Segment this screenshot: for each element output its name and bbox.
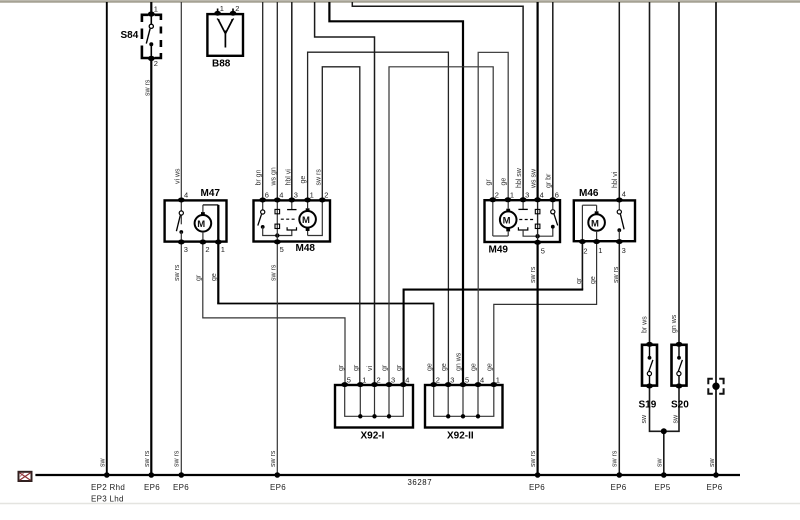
node EP6 (M48 wire) xyxy=(270,483,286,492)
svg-text:EP6: EP6 xyxy=(707,483,723,492)
X92-II pin 2 xyxy=(436,376,440,385)
wire br ws: top border to S19 xyxy=(649,2,651,345)
M48 pin 5 xyxy=(280,245,284,254)
switch S20 xyxy=(672,342,687,389)
svg-text:M: M xyxy=(197,219,205,230)
svg-text:sw rs: sw rs xyxy=(145,79,152,96)
wire label ws sw (M49 pin 4) xyxy=(530,168,537,189)
svg-text:M: M xyxy=(503,216,511,227)
svg-text:sw: sw xyxy=(641,414,648,424)
M46 pin 1 xyxy=(598,246,602,255)
svg-text:1: 1 xyxy=(598,246,602,255)
M49 pin 1 xyxy=(510,191,514,200)
svg-text:EP6: EP6 xyxy=(270,483,286,492)
wire sw: junction below S19/S20 to ground bus xyxy=(663,431,665,475)
svg-text:sw rs: sw rs xyxy=(174,450,181,467)
svg-text:EP6: EP6 xyxy=(611,483,627,492)
wire vi ws: top border to M47 pin 4 xyxy=(180,2,182,200)
svg-text:1: 1 xyxy=(220,4,224,13)
switch S19 xyxy=(642,342,657,389)
wire gr br: top border to M49 pin 6 xyxy=(552,2,554,200)
svg-text:ge: ge xyxy=(426,363,433,371)
wire label gr (M49 pin 2) xyxy=(486,179,493,186)
svg-text:3: 3 xyxy=(622,246,626,255)
svg-text:sw rs: sw rs xyxy=(613,266,620,283)
wire ge: M47 pin 1 down, right at y=303.5, down at x=433.6 to X92-II pin 2 xyxy=(217,242,433,385)
wire label sw rs (M47 pin 3 wire at bus) xyxy=(174,450,181,467)
wire ge: M46 pin 1 down, left at y=304.4, down at x=493.8 to X92-II pin 1 xyxy=(494,241,597,385)
M49 pin 6 xyxy=(555,191,559,200)
svg-text:sw rs: sw rs xyxy=(315,169,322,186)
motor unit M48 xyxy=(254,198,331,245)
svg-text:sw rs: sw rs xyxy=(144,450,151,467)
svg-text:EP6: EP6 xyxy=(173,483,189,492)
svg-text:gr: gr xyxy=(576,277,583,284)
svg-text:EP6: EP6 xyxy=(529,483,545,492)
M46 pin 3 xyxy=(622,246,626,255)
wire label sw (left bus wire) xyxy=(100,458,107,468)
svg-text:vi ws: vi ws xyxy=(174,168,181,184)
wire label sw (S19/S20 wire at bus) xyxy=(657,458,664,468)
wire sw: S19 and S20 join at y=431.3 xyxy=(650,386,680,432)
B88 pin 2 xyxy=(235,4,239,13)
svg-text:1: 1 xyxy=(510,191,514,200)
earth point symbol (red hatched box at left) xyxy=(19,472,32,481)
wire label gr (M46 pin 2) xyxy=(576,277,583,284)
connector X92-II xyxy=(425,382,503,427)
svg-text:1: 1 xyxy=(496,376,500,385)
wire vi: top border down at x=314.6, right at y=37, down at x=374.5 to X92-I pin 2 xyxy=(315,2,375,385)
svg-text:M48: M48 xyxy=(296,243,316,254)
B88 pin 1 xyxy=(220,4,224,13)
wire label sw rs (S84 lower wire) xyxy=(145,79,152,96)
S84 pin 1 xyxy=(154,5,158,14)
svg-text:M: M xyxy=(591,218,599,229)
junction dot node EP6 (M47 wire) xyxy=(179,472,185,478)
M46 pin 4 xyxy=(622,190,626,199)
svg-text:S20: S20 xyxy=(671,400,689,411)
svg-text:sw: sw xyxy=(100,458,107,468)
svg-text:4: 4 xyxy=(184,191,188,200)
junction dot node EP6 (M46 wire) xyxy=(617,472,623,478)
X92-II reference label xyxy=(447,431,474,442)
svg-text:ge: ge xyxy=(211,273,218,281)
X92-I reference label xyxy=(361,431,385,442)
wire ws sw: top border to M49 pin 4 xyxy=(536,2,538,200)
svg-text:ge: ge xyxy=(441,363,448,371)
svg-text:1: 1 xyxy=(310,191,314,200)
M49 pin 3 xyxy=(525,191,529,200)
wire label gr (X92-I pin 5) xyxy=(338,364,345,371)
svg-text:ge: ge xyxy=(590,276,597,284)
wire hbl vi: top border to M46 pin 4 xyxy=(618,2,620,200)
wire sw rs: M48 pin 2 up, right at y=66.8, down at x=359.8 to X92-I pin 1 xyxy=(322,67,360,385)
wire sw rs: M47 pin 3 to ground bus xyxy=(180,242,182,475)
wire gn ws: top border to S20 xyxy=(678,2,680,345)
motor M47 xyxy=(165,198,227,245)
B88 reference label xyxy=(212,59,231,70)
junction dot node EP6 (S84 wire) xyxy=(149,472,155,478)
ground bus line xyxy=(35,474,740,476)
svg-text:M46: M46 xyxy=(579,188,599,199)
page top border xyxy=(0,0,800,2)
junction dot node EP5 (S19/S20 wire) xyxy=(661,472,667,478)
wire sw: top border to ground bus at x=106.8 xyxy=(106,2,108,475)
M47 pin 4 xyxy=(184,191,188,200)
wire label ge (X92-II pin 3) xyxy=(441,363,448,371)
svg-text:gr: gr xyxy=(338,364,345,371)
svg-text:hbl sw: hbl sw xyxy=(516,167,523,188)
svg-text:M: M xyxy=(302,215,310,226)
S19 reference label xyxy=(639,400,657,411)
junction dot node EP2/EP3 xyxy=(104,472,110,478)
M46 pin 2 xyxy=(583,247,587,256)
wire label ge (M47 pin 1) xyxy=(211,273,218,281)
S20 reference label xyxy=(671,400,689,411)
svg-text:X92-I: X92-I xyxy=(361,431,385,442)
M49 pin 4 xyxy=(540,191,544,200)
wire sw rs: M48 pin 5 to ground bus xyxy=(276,242,278,476)
motor unit M49 xyxy=(485,197,561,245)
svg-text:5: 5 xyxy=(280,245,284,254)
junction dot node EP6 (M48 wire) xyxy=(275,472,281,478)
svg-text:6: 6 xyxy=(265,191,269,200)
svg-text:EP6: EP6 xyxy=(144,483,160,492)
svg-text:B88: B88 xyxy=(212,59,231,70)
svg-text:EP3 Lhd: EP3 Lhd xyxy=(91,495,124,504)
svg-text:sw rs: sw rs xyxy=(174,264,181,281)
wire label sw rs (M46 pin 3) xyxy=(613,266,620,283)
M49 pin 5 xyxy=(541,247,545,256)
svg-text:1: 1 xyxy=(362,376,366,385)
switch S84 xyxy=(142,11,161,61)
wire hbl sw: top border down at x=352.3, right at y=6.3, down at x=523.1 to M49 pin 3 xyxy=(352,2,523,200)
wire label sw (S19 bottom) xyxy=(641,414,648,424)
svg-text:br ws: br ws xyxy=(641,316,648,333)
wire label sw rs (M49 pin 5) xyxy=(530,266,537,283)
svg-text:2: 2 xyxy=(324,191,328,200)
junction dot S19/S20 merge xyxy=(661,428,667,434)
wire label ge (X92-II pin 1) xyxy=(486,363,493,371)
M49 reference label xyxy=(489,245,509,256)
M49 pin 2 xyxy=(495,191,499,200)
wire br gn: top border to M48 pin 6 xyxy=(262,2,264,200)
wire gr: M46 pin 2 down, left at y=289.6, down at x=403.6 to X92-I pin 4 xyxy=(404,241,584,385)
svg-text:5: 5 xyxy=(465,376,469,385)
svg-text:gr: gr xyxy=(353,364,360,371)
S84 pin 2 xyxy=(154,59,158,68)
node EP2 Rhd xyxy=(91,483,125,492)
wire label br gn (M48 pin 6) xyxy=(255,169,262,185)
svg-text:gr: gr xyxy=(196,274,203,281)
svg-text:3: 3 xyxy=(294,191,298,200)
svg-text:hbl vi: hbl vi xyxy=(612,171,619,188)
svg-text:ws gn: ws gn xyxy=(270,167,277,186)
svg-text:2: 2 xyxy=(377,376,381,385)
M47 pin 1 xyxy=(221,245,225,254)
wire label sw rs (M48 pin 5 wire at bus) xyxy=(270,450,277,467)
wire label hbl vi (M48 pin 3) xyxy=(285,169,292,186)
svg-text:4: 4 xyxy=(540,191,544,200)
svg-text:sw: sw xyxy=(657,458,664,468)
antenna B88 xyxy=(207,9,243,56)
wire label hbl vi (M46 pin 4) xyxy=(612,171,619,188)
wire sw rs: M46 pin 3 to ground bus xyxy=(618,241,620,475)
svg-text:S84: S84 xyxy=(121,30,139,41)
svg-text:5: 5 xyxy=(541,247,545,256)
M48 pin 1 xyxy=(310,191,314,200)
svg-text:sw rs: sw rs xyxy=(270,450,277,467)
svg-text:ge: ge xyxy=(471,363,478,371)
svg-text:M47: M47 xyxy=(201,188,221,199)
svg-text:1: 1 xyxy=(221,245,225,254)
X92-II pin 4 xyxy=(480,376,484,385)
svg-text:hbl vi: hbl vi xyxy=(285,169,292,186)
svg-text:ge: ge xyxy=(300,176,307,184)
connector X92-I xyxy=(335,382,413,427)
wire label gn ws (X92-II pin 5) xyxy=(456,352,463,371)
wire label gr (M47 pin 2) xyxy=(196,274,203,281)
svg-text:S19: S19 xyxy=(639,400,657,411)
M48 reference label xyxy=(296,243,316,254)
wire label ws gn (M48 pin 4) xyxy=(270,167,277,186)
svg-text:sw rs: sw rs xyxy=(612,450,619,467)
svg-text:gn ws: gn ws xyxy=(671,314,678,333)
X92-I pin 1 xyxy=(362,376,366,385)
svg-text:3: 3 xyxy=(525,191,529,200)
svg-text:1: 1 xyxy=(154,5,158,14)
svg-text:sw rs: sw rs xyxy=(530,266,537,283)
svg-text:sw: sw xyxy=(709,458,716,468)
wire ge: X92-II pin 4 up, bridge right at y=52.4, down at x=508.2 to M49 pin 1 xyxy=(478,52,508,385)
X92-II pin 1 xyxy=(496,376,500,385)
wire label ge (X92-II pin 2) xyxy=(426,363,433,371)
svg-text:5: 5 xyxy=(347,376,351,385)
svg-text:2: 2 xyxy=(495,191,499,200)
M48 pin 6 xyxy=(265,191,269,200)
svg-text:2: 2 xyxy=(154,59,158,68)
M48 pin 3 xyxy=(294,191,298,200)
M47 pin 3 xyxy=(184,245,188,254)
M47 pin 2 xyxy=(205,245,209,254)
junction dot node EP6 (antenna wire) xyxy=(713,472,719,478)
svg-text:gr br: gr br xyxy=(546,173,553,188)
svg-text:EP5: EP5 xyxy=(655,483,671,492)
svg-text:gr: gr xyxy=(382,364,389,371)
wire label sw rs (M49 pin 5 wire at bus) xyxy=(530,450,537,467)
diagram number 36287 xyxy=(408,478,433,487)
wire label sw rs (M48 pin 5) xyxy=(270,264,277,281)
node EP6 (S84 wire) xyxy=(144,483,160,492)
svg-text:ge: ge xyxy=(501,178,508,186)
svg-text:3: 3 xyxy=(391,376,395,385)
node EP6 (M46 wire) xyxy=(611,483,627,492)
wire label sw rs (M46 pin 3 wire at bus) xyxy=(612,450,619,467)
svg-text:4: 4 xyxy=(279,191,283,200)
motor M46 xyxy=(574,198,635,245)
wire hbl vi: top border to M48 pin 3 xyxy=(291,2,293,200)
svg-text:2: 2 xyxy=(235,4,239,13)
wire label gr (X92-I pin 3) xyxy=(382,364,389,371)
svg-text:6: 6 xyxy=(555,191,559,200)
wire label ge (M49 pin 1) xyxy=(501,178,508,186)
wire gr: X92-I pin 3 up, right at y=66.8, down at x=493.2 to M49 pin 2 xyxy=(389,67,493,385)
node EP5 (S19/S20 wire) xyxy=(655,483,671,492)
wire label vi ws (M47 pin 4) xyxy=(174,168,181,184)
M48 pin 2 xyxy=(324,191,328,200)
wire label hbl sw (M49 pin 3) xyxy=(516,167,523,188)
svg-text:ws sw: ws sw xyxy=(530,168,537,189)
svg-text:ge: ge xyxy=(486,363,493,371)
svg-text:36287: 36287 xyxy=(408,478,433,487)
svg-text:3: 3 xyxy=(184,245,188,254)
M46 reference label xyxy=(579,188,599,199)
node EP6 (M47 wire) xyxy=(173,483,189,492)
svg-text:sw rs: sw rs xyxy=(530,450,537,467)
wire label gr br (M49 pin 6) xyxy=(546,173,553,188)
faint page line bottom xyxy=(0,503,800,505)
wire ge: M48 pin 1 up, right at y=52.2, down at x=448.4 to X92-II pin 3 xyxy=(308,52,449,385)
svg-text:2: 2 xyxy=(436,376,440,385)
wire label vi (X92-I pin 2) xyxy=(367,366,374,372)
svg-text:EP2 Rhd: EP2 Rhd xyxy=(91,483,125,492)
svg-text:sw: sw xyxy=(672,414,679,424)
junction dot node EP6 (M49 wire) xyxy=(535,472,541,478)
wire label ge (X92-II pin 4) xyxy=(471,363,478,371)
wire label sw rs (S84 wire at bus) xyxy=(144,450,151,467)
svg-text:3: 3 xyxy=(450,376,454,385)
antenna connector (dashed box with junction dot) xyxy=(708,379,723,394)
wire label gr (X92-I pin 1) xyxy=(353,364,360,371)
svg-text:M49: M49 xyxy=(489,245,509,256)
node EP6 (M49 wire) xyxy=(529,483,545,492)
svg-text:2: 2 xyxy=(583,247,587,256)
X92-I pin 3 xyxy=(391,376,395,385)
wire label ge (M48 pin 1) xyxy=(300,176,307,184)
wire gr: M47 pin 2 down, right at y=317.9, down at x=345 to X92-I pin 5 xyxy=(203,242,345,385)
S84 reference label xyxy=(121,30,139,41)
svg-text:gr: gr xyxy=(486,179,493,186)
wire label ge (M46 pin 1) xyxy=(590,276,597,284)
svg-text:sw rs: sw rs xyxy=(270,264,277,281)
X92-I pin 2 xyxy=(377,376,381,385)
svg-text:vi: vi xyxy=(367,366,374,372)
node EP3 Lhd xyxy=(91,495,124,504)
svg-text:4: 4 xyxy=(405,376,409,385)
X92-II pin 3 xyxy=(450,376,454,385)
wire label sw (S20 bottom) xyxy=(672,414,679,424)
X92-I pin 5 xyxy=(347,376,351,385)
wire label sw rs (M47 pin 3) xyxy=(174,264,181,281)
wire label gn ws (S20 top) xyxy=(671,314,678,333)
wire label sw (antenna connector wire at bus) xyxy=(709,458,716,468)
M48 pin 4 xyxy=(279,191,283,200)
svg-text:X92-II: X92-II xyxy=(447,431,474,442)
wire gn ws: top border down at x=329.4, right at y=21.3, down at x=463 to X92-II pin 5 xyxy=(329,2,463,385)
wire: top border to S84 pin 1 xyxy=(150,2,152,14)
wire ws gn: top border to M48 pin 4 xyxy=(276,2,278,200)
svg-text:4: 4 xyxy=(480,376,484,385)
svg-text:br gn: br gn xyxy=(255,169,262,185)
M47 reference label xyxy=(201,188,221,199)
svg-text:gn ws: gn ws xyxy=(456,352,463,371)
wire sw rs: M49 pin 5 to ground bus xyxy=(536,242,538,475)
wire label gr (X92-I pin 4) xyxy=(396,364,403,371)
wire sw rs: S84 pin 2 to ground bus xyxy=(150,58,152,475)
node EP6 (antenna wire) xyxy=(707,483,723,492)
wire label br ws (S19 top) xyxy=(641,316,648,333)
X92-II pin 5 xyxy=(465,376,469,385)
wire sw: top border through antenna connector to ground bus at x=716 xyxy=(715,2,717,475)
svg-text:2: 2 xyxy=(205,245,209,254)
svg-text:4: 4 xyxy=(622,190,626,199)
svg-text:gr: gr xyxy=(396,364,403,371)
wire label sw rs (M48 pin 2) xyxy=(315,169,322,186)
X92-I pin 4 xyxy=(405,376,409,385)
